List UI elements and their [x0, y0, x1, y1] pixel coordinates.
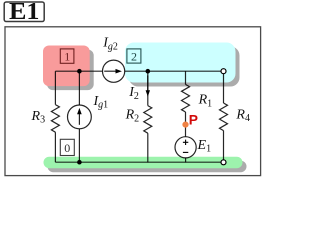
wire: R2 bottom to ground rail	[147, 133, 149, 162]
wire: R2 branch top	[147, 71, 149, 105]
node box 1	[60, 49, 74, 63]
wire: Ig1 branch top	[78, 71, 80, 105]
resistor R4	[220, 103, 228, 131]
wire: ground rail	[55, 161, 221, 163]
svg-text:0: 0	[64, 141, 70, 155]
current source Ig2	[103, 60, 125, 82]
junction dot on ground rail	[77, 160, 82, 165]
title box E1	[4, 0, 44, 25]
voltage source E1	[175, 137, 196, 158]
junction dot at node2/R2	[146, 69, 151, 74]
node 0 / ground highlight (green band)	[44, 157, 247, 173]
junction dot at node1/Ig1	[77, 69, 82, 74]
wire: Ig1 branch bottom	[78, 129, 80, 162]
svg-text:E1: E1	[9, 0, 40, 25]
wire: R4 branch top	[223, 74, 225, 103]
wire: top rail right (Ig2 to node2 terminal)	[125, 70, 221, 72]
wire: E1 bottom to ground rail	[185, 158, 187, 162]
svg-text:2: 2	[131, 49, 137, 63]
open terminal top right	[221, 69, 226, 74]
resistor R2	[144, 106, 152, 134]
current arrow I2	[146, 76, 150, 97]
wire: R4 bottom to ground terminal	[223, 131, 225, 160]
node 1 highlight (red region)	[43, 46, 94, 91]
node 2 highlight (cyan region)	[125, 43, 240, 87]
wire: R1 branch top	[185, 71, 187, 84]
wire: left branch (R3) vertical	[54, 71, 56, 104]
wire: top rail left (node1 to Ig2)	[55, 70, 102, 72]
open terminal bottom right	[221, 160, 226, 165]
resistor R1	[182, 84, 190, 112]
node box 0	[60, 139, 74, 155]
current source Ig1	[68, 105, 92, 129]
resistor R3	[51, 105, 59, 133]
wire: R3 bottom to ground rail	[54, 132, 56, 162]
svg-text:P: P	[189, 112, 198, 127]
svg-text:1: 1	[64, 49, 70, 63]
wire: R1 to E1 source	[185, 112, 187, 137]
node box 2	[127, 49, 141, 63]
probe P (red dot)	[182, 122, 188, 128]
